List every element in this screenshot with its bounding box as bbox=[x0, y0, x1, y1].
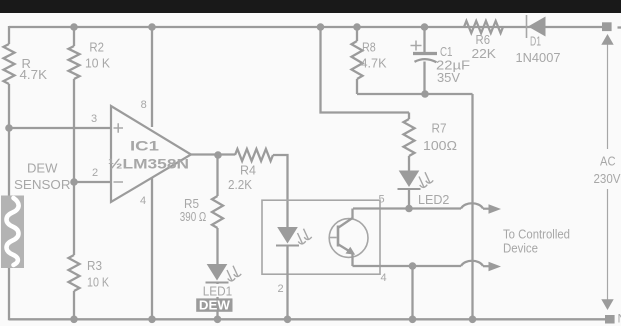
node inverting input junction bbox=[70, 178, 78, 186]
svg-text:½LM358N: ½LM358N bbox=[108, 156, 189, 172]
svg-text:100Ω: 100Ω bbox=[423, 138, 457, 153]
terminal N square bbox=[605, 315, 615, 324]
svg-text:4.7K: 4.7K bbox=[361, 56, 387, 71]
node R3 ground junction bbox=[70, 316, 78, 324]
node pin8 bus junction bbox=[148, 23, 156, 31]
wire negative rail vertical bbox=[471, 94, 473, 320]
svg-text:10 K: 10 K bbox=[87, 275, 109, 290]
optocoupler LED bbox=[277, 227, 298, 244]
svg-text:390 Ω: 390 Ω bbox=[180, 209, 207, 224]
svg-text:4: 4 bbox=[380, 272, 386, 284]
svg-text:2: 2 bbox=[92, 167, 98, 179]
resistor R6 bbox=[464, 21, 503, 33]
node R2 top junction bbox=[70, 23, 78, 31]
wire opto LED cathode to ground bbox=[286, 246, 288, 321]
diode D1 triangle bbox=[528, 17, 546, 37]
node R8 top junction bbox=[353, 23, 361, 31]
node emitter ground junction bbox=[409, 262, 417, 270]
svg-text:D1: D1 bbox=[530, 34, 541, 49]
wire LED2 to pin5 line bbox=[408, 189, 410, 209]
capacitor C1 top plate bbox=[413, 52, 437, 55]
wire left rail mid segment bbox=[8, 84, 10, 128]
wire R8 bottom lead bbox=[356, 79, 358, 94]
svg-text:R8: R8 bbox=[362, 40, 376, 55]
wire C1 top lead bbox=[423, 27, 425, 52]
svg-text:8: 8 bbox=[141, 99, 147, 111]
wire R7 to LED2 bbox=[408, 156, 410, 171]
wire R8 top lead bbox=[356, 27, 358, 41]
node negative rail ground junction bbox=[469, 316, 477, 324]
AC source arrow down bbox=[601, 299, 613, 310]
svg-text:LED2: LED2 bbox=[418, 192, 449, 207]
wire pin 5 collector line bbox=[353, 207, 461, 209]
wire pin 4 to ground bbox=[151, 178, 153, 320]
wire hop pin5 over rail bbox=[461, 203, 483, 208]
phototransistor base bar bbox=[337, 226, 340, 247]
AC text background bbox=[589, 149, 621, 189]
svg-text:Device: Device bbox=[503, 241, 538, 256]
wire op-amp output bbox=[191, 153, 235, 155]
svg-text:22K: 22K bbox=[472, 46, 497, 61]
node C1 top junction bbox=[421, 23, 429, 31]
op-amp U1 IC1 triangle bbox=[111, 106, 191, 202]
node output junction bbox=[214, 151, 222, 159]
arrow to controlled device lower bbox=[483, 265, 489, 267]
op-amp plus input symbol bbox=[114, 123, 124, 132]
svg-text:230V: 230V bbox=[594, 171, 621, 186]
wire sensor to ground bus bbox=[8, 268, 10, 320]
wire branch to R7 bbox=[408, 113, 410, 120]
capacitor C1 bottom plate bbox=[415, 59, 437, 62]
node C1 negative junction bbox=[421, 90, 429, 98]
wire R3 to ground bus bbox=[73, 291, 75, 320]
wire pin 4 emitter line bbox=[353, 265, 462, 267]
svg-text:R7: R7 bbox=[432, 121, 447, 136]
wire C1 bottom lead bbox=[423, 62, 425, 95]
svg-text:R3: R3 bbox=[87, 258, 102, 273]
wire L stub bbox=[618, 26, 621, 28]
wire R2 to inverting node bbox=[73, 79, 75, 255]
resistor R7 bbox=[404, 119, 415, 156]
wire emitter to ground bus bbox=[411, 266, 413, 320]
arrow to controlled device upper bbox=[483, 208, 489, 210]
svg-text:IC1: IC1 bbox=[130, 138, 159, 154]
svg-text:LED1: LED1 bbox=[203, 284, 233, 299]
wire left rail to sensor bbox=[8, 128, 10, 196]
wire hop pin4 over rail bbox=[461, 261, 483, 266]
svg-text:DEW: DEW bbox=[27, 161, 58, 176]
wire output to R5 bbox=[216, 155, 218, 196]
resistor R8 bbox=[352, 41, 363, 79]
svg-text:N: N bbox=[618, 312, 621, 326]
wire inverting input bbox=[74, 181, 111, 183]
wire R2 top lead bbox=[73, 27, 75, 46]
terminal L square bbox=[602, 22, 612, 31]
phototransistor emitter arrow bbox=[346, 247, 356, 255]
wire R5 to LED1 bbox=[216, 228, 218, 264]
resistor R2 bbox=[69, 46, 80, 79]
wire LED1 to ground bus bbox=[216, 283, 218, 321]
wire negative link horizontal bbox=[357, 93, 473, 95]
optocoupler U2 body bbox=[262, 200, 380, 274]
node opto ground junction bbox=[284, 316, 292, 324]
svg-text:4: 4 bbox=[140, 195, 146, 207]
wire pin 8 to supply bbox=[151, 27, 153, 127]
svg-text:10 K: 10 K bbox=[85, 56, 110, 71]
phototransistor collector lead bbox=[339, 209, 353, 228]
wire left rail top segment bbox=[8, 26, 10, 44]
label LED1 background bbox=[202, 284, 234, 297]
svg-text:2: 2 bbox=[277, 283, 283, 295]
svg-text:3: 3 bbox=[91, 113, 97, 125]
dew sensor element bbox=[7, 198, 19, 265]
node emitter bus junction bbox=[409, 316, 417, 324]
wire non-inverting input bbox=[9, 127, 111, 129]
top black banner bar bbox=[0, 0, 621, 13]
dew sensor body bbox=[1, 196, 24, 269]
wire positive branch bbox=[321, 27, 410, 113]
node LED2 junction bbox=[405, 205, 413, 213]
phototransistor Q1 body bbox=[329, 219, 368, 258]
svg-text:R6: R6 bbox=[476, 32, 491, 47]
node positive branch junction bbox=[317, 23, 325, 31]
svg-text:2.2K: 2.2K bbox=[228, 177, 252, 192]
svg-text:R4: R4 bbox=[240, 163, 256, 178]
resistor R3 bbox=[69, 255, 80, 291]
AC source arrow up bbox=[601, 34, 613, 45]
node plus-input junction bbox=[5, 124, 13, 132]
phototransistor emitter lead bbox=[339, 245, 353, 267]
LED2 bbox=[399, 171, 420, 188]
op-amp minus input symbol bbox=[114, 181, 124, 183]
svg-text:35V: 35V bbox=[437, 70, 460, 85]
svg-text:R2: R2 bbox=[89, 39, 104, 54]
svg-text:1N4007: 1N4007 bbox=[516, 50, 561, 65]
svg-text:5: 5 bbox=[378, 194, 384, 206]
node LED1 ground junction bbox=[214, 316, 222, 324]
wire R4 to opto corner bbox=[273, 155, 288, 227]
capacitor C1 polarity plus bbox=[411, 41, 422, 51]
label DEW indicator box bbox=[196, 298, 232, 311]
AC source line bbox=[607, 45, 609, 300]
svg-text:SENSOR: SENSOR bbox=[14, 177, 71, 192]
wire top supply bus bbox=[9, 26, 602, 28]
LED1 bbox=[207, 264, 228, 281]
node pin4 ground junction bbox=[148, 316, 156, 324]
phototransistor base lead bbox=[329, 237, 337, 239]
svg-text:DEW: DEW bbox=[199, 297, 231, 312]
diode D1 cathode bar bbox=[526, 15, 528, 38]
resistor R4 bbox=[235, 149, 273, 161]
resistor R5 bbox=[212, 196, 223, 228]
svg-text:To Controlled: To Controlled bbox=[503, 227, 570, 242]
wire bottom ground bus bbox=[9, 318, 605, 320]
resistor R1 bbox=[4, 44, 15, 84]
svg-text:4.7K: 4.7K bbox=[20, 67, 48, 82]
svg-text:AC: AC bbox=[600, 154, 616, 169]
